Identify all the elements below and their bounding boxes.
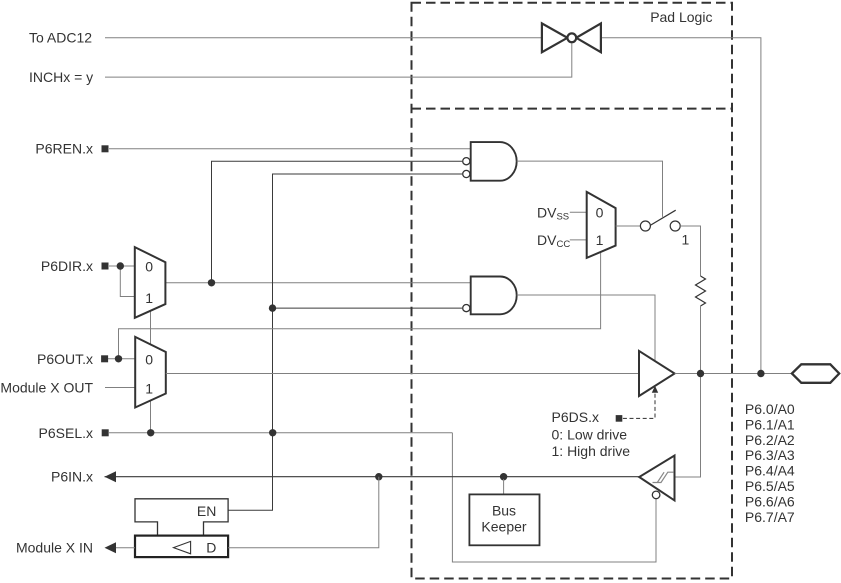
svg-text:Bus: Bus (492, 503, 516, 519)
svg-text:P6.7/A7: P6.7/A7 (745, 509, 795, 525)
clock triangle in D box (174, 541, 191, 553)
pad hexagon (792, 364, 839, 383)
node mux1 output junction (208, 279, 215, 286)
latch D box (135, 536, 228, 558)
svg-text:Module X IN: Module X IN (16, 540, 93, 556)
terminal P6SEL.x (102, 429, 109, 436)
label P6.0/A0 list (745, 401, 795, 525)
svg-text:P6.0/A0: P6.0/A0 (745, 401, 795, 417)
wire To ADC12 (105, 37, 542, 39)
wire Module X OUT (105, 387, 135, 389)
svg-text:Pad Logic: Pad Logic (650, 9, 712, 25)
node P6IN bus keeper junction (500, 473, 507, 480)
svg-text:0: 0 (145, 258, 153, 274)
schmitt trigger U5 input buffer (639, 456, 674, 501)
svg-text:1: High drive: 1: High drive (552, 443, 631, 459)
svg-text:1: 1 (682, 232, 690, 248)
wire P6SEL route to schmitt enable (452, 433, 656, 562)
wire P6SEL vertical to AND1 bottom input and EN (228, 174, 462, 510)
latch EN box (135, 499, 228, 535)
node P6SEL mux select (147, 429, 154, 436)
wire DVcc input (570, 239, 587, 241)
wire P6REN (109, 148, 471, 150)
svg-text:0: 0 (596, 204, 604, 220)
mux M2 P6OUT (135, 337, 166, 408)
and-gate U2 (3-input) (471, 142, 517, 181)
mux M3 pull resistor (587, 192, 616, 258)
wire feedback to AND1 middle input (212, 161, 463, 283)
wire DVss input (570, 211, 587, 213)
svg-text:INCHx = y: INCHx = y (29, 69, 93, 85)
node P6IN D input junction (375, 473, 382, 480)
wire INCHx (105, 42, 572, 77)
wire switch to resistor (680, 226, 700, 276)
svg-text:P6DS.x: P6DS.x (552, 409, 599, 425)
wire mux1 output to AND2 top input (165, 282, 470, 284)
node pad adc junction (757, 370, 764, 377)
terminal P6DIR.x (102, 263, 109, 270)
svg-text:D: D (206, 540, 216, 556)
svg-text:P6OUT.x: P6OUT.x (37, 351, 93, 367)
arrowhead P6DS (652, 386, 658, 393)
terminal P6DS.x (616, 415, 623, 422)
svg-text:To ADC12: To ADC12 (29, 29, 92, 45)
bubble AND2 bottom input (463, 305, 470, 312)
dashed divider line (412, 108, 733, 110)
wire P6DIR (109, 265, 135, 267)
wire AND1 output to switch lever (517, 161, 663, 217)
svg-text:P6.6/A6: P6.6/A6 (745, 493, 795, 509)
wire P6OUT to pull mux select rail (119, 252, 601, 359)
bubble AND1 bottom input (463, 170, 470, 177)
node P6SEL EN riser (269, 429, 276, 436)
wire mux select chain (150, 311, 152, 345)
node pad resistor junction (697, 370, 704, 377)
bus keeper box (469, 494, 539, 545)
wire mux2 output to driver (166, 373, 639, 375)
wire P6DIR stub to input 1 (120, 266, 135, 297)
svg-text:P6IN.x: P6IN.x (51, 469, 93, 485)
dashed box Pad Logic outer (412, 3, 733, 579)
svg-text:0: Low drive: 0: Low drive (552, 426, 628, 442)
svg-text:EN: EN (197, 503, 216, 519)
svg-text:P6.3/A3: P6.3/A3 (745, 447, 795, 463)
node P6DIR junction (117, 262, 124, 269)
wire mux3 output to switch (616, 225, 641, 227)
mux M1 P6DIR (135, 247, 166, 318)
arrowhead P6IN (105, 471, 117, 482)
wire Module X IN (116, 547, 135, 549)
node AND2 input tee (269, 304, 276, 311)
bubble schmitt enable (652, 491, 660, 499)
wire resistor to pad node and schmitt input (675, 306, 701, 477)
wire bus keeper stub (503, 479, 505, 494)
terminal P6REN.x (102, 145, 109, 152)
and-gate U3 (2-input) (471, 277, 517, 315)
svg-text:P6.4/A4: P6.4/A4 (745, 463, 795, 479)
wire pad line (675, 373, 792, 375)
wire tee to AND2 bottom input (273, 307, 463, 309)
transmission gate U1 (542, 23, 601, 52)
wire AND2 output to driver enable (517, 295, 655, 361)
svg-text:P6.5/A5: P6.5/A5 (745, 478, 795, 494)
wire P6SEL (109, 432, 452, 434)
wire P6IN (105, 476, 640, 478)
bubble AND1 middle input (463, 158, 470, 165)
terminal P6OUT.x (101, 355, 108, 362)
svg-text:1: 1 (145, 290, 153, 306)
svg-text:P6SEL.x: P6SEL.x (39, 425, 93, 441)
switch S1 (640, 221, 680, 231)
arrowhead Module X IN (105, 542, 117, 553)
svg-text:P6REN.x: P6REN.x (35, 140, 93, 156)
driver U4 output buffer (639, 351, 675, 396)
svg-text:Keeper: Keeper (481, 519, 526, 535)
resistor R1 (696, 276, 706, 306)
svg-text:P6DIR.x: P6DIR.x (41, 258, 93, 274)
schmitt hysteresis glyph (653, 472, 674, 482)
svg-text:P6.2/A2: P6.2/A2 (745, 432, 795, 448)
svg-text:1: 1 (596, 232, 604, 248)
wire P6OUT (108, 358, 135, 360)
switch lever (650, 210, 676, 225)
svg-text:Module X OUT: Module X OUT (0, 380, 93, 396)
svg-text:0: 0 (145, 351, 153, 367)
wire ADC to pad node (601, 38, 761, 374)
node P6OUT junction (115, 355, 122, 362)
wire D input from P6IN (228, 477, 379, 548)
dashed wire P6DS to driver (623, 393, 655, 419)
svg-text:P6.1/A1: P6.1/A1 (745, 416, 795, 432)
svg-text:1: 1 (145, 380, 153, 396)
